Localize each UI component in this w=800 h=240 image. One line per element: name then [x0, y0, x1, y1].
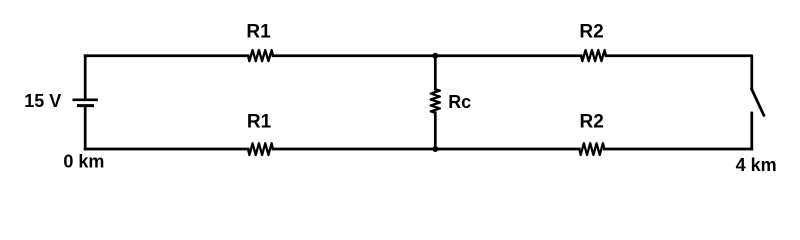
- svg-text:R1: R1: [246, 22, 271, 43]
- svg-text:15 V: 15 V: [24, 91, 61, 111]
- svg-text:0 km: 0 km: [63, 152, 104, 172]
- svg-text:Rc: Rc: [448, 92, 471, 112]
- svg-text:R2: R2: [579, 22, 603, 43]
- svg-text:R1: R1: [247, 112, 272, 133]
- svg-text:4 km: 4 km: [736, 155, 777, 175]
- svg-text:R2: R2: [580, 112, 604, 133]
